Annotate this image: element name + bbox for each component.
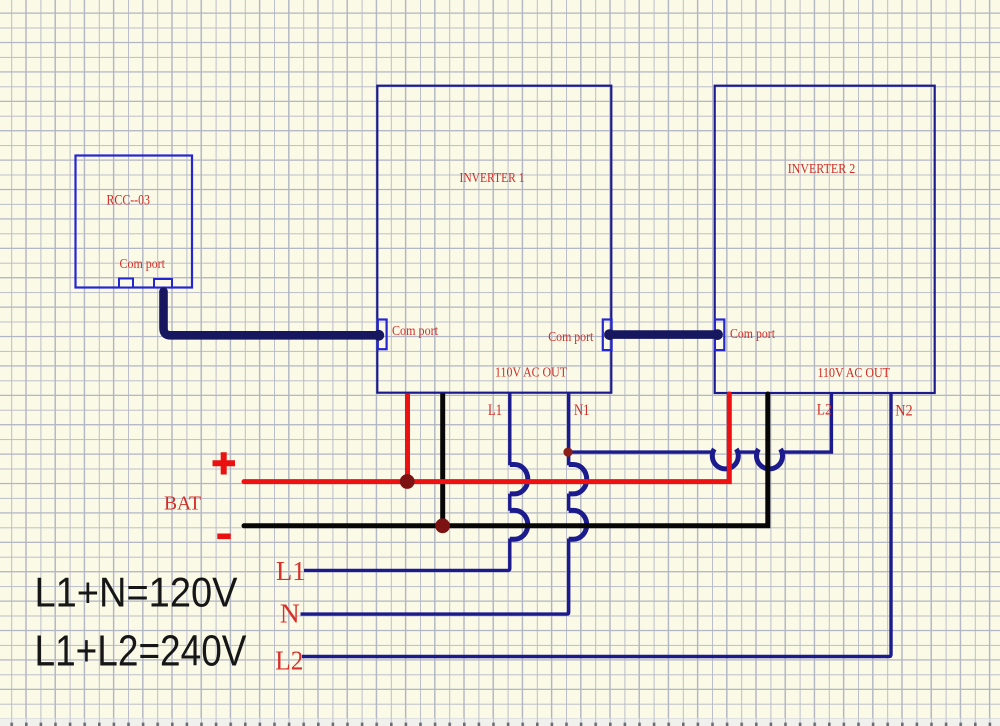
svg-text:L2: L2: [275, 646, 303, 676]
svg-text:Com port: Com port: [548, 329, 593, 344]
svg-text:L1+N=120V: L1+N=120V: [35, 569, 238, 616]
svg-text:110V AC OUT: 110V AC OUT: [818, 366, 891, 381]
svg-text:L1: L1: [276, 556, 306, 586]
communication cable W1 from RCC to inverter 1: [164, 292, 379, 336]
hop of tie wire over red riser: [712, 449, 738, 469]
hop of wire N1 over red bus: [569, 465, 587, 494]
svg-text:BAT: BAT: [164, 492, 201, 514]
wire N1 output of inverter 1 (vertical with hops): [301, 394, 569, 615]
svg-text:RCC--03: RCC--03: [107, 192, 151, 208]
com port connector J1 on inverter 1 left: [378, 320, 387, 350]
wire N2 output of inverter 2: [302, 394, 891, 657]
svg-text:L2: L2: [817, 402, 832, 419]
svg-text:Com port: Com port: [730, 326, 775, 341]
svg-text:L1: L1: [488, 402, 502, 419]
junction dot on red bus at inverter 1 riser: [400, 474, 415, 489]
junction node on N1 wire: [563, 448, 572, 457]
com port connector J3 on inverter 2 left: [715, 320, 724, 351]
junction dot on black bus at inverter 1 riser: [435, 518, 450, 533]
tie wire from node N1 to inverter 2 L2 (horizontal with hops): [569, 394, 832, 453]
minus symbol: [217, 534, 230, 540]
hop of wire L1 over red bus: [510, 465, 528, 494]
svg-text:Com port: Com port: [392, 323, 438, 338]
svg-text:N1: N1: [574, 402, 590, 419]
svg-text:N2: N2: [895, 402, 913, 419]
hop of wire N1 over black bus: [569, 510, 587, 539]
red riser wire from inverter 1 DC+: [405, 394, 410, 482]
connector pin A on RCC: [119, 279, 133, 288]
box RCC-03 remote controller: [76, 156, 193, 288]
svg-text:L1+L2=240V: L1+L2=240V: [35, 626, 248, 675]
connector pin B on RCC: [154, 279, 172, 288]
svg-text:N: N: [280, 598, 300, 628]
hop of tie wire over black riser: [757, 449, 783, 469]
hop of wire L1 over black bus: [510, 510, 528, 539]
communication cable W2 from inverter 1 to inverter 2: [610, 330, 718, 339]
plus symbol: [213, 452, 236, 474]
box INVERTER 2: [715, 86, 935, 393]
svg-text:INVERTER 2: INVERTER 2: [788, 162, 856, 177]
box INVERTER 1: [377, 86, 611, 393]
wire L1 output of inverter 1 (vertical with hops): [304, 394, 510, 571]
svg-text:110V AC OUT: 110V AC OUT: [495, 365, 567, 380]
com port connector J2 on inverter 1 right: [603, 320, 612, 351]
battery positive bus wire (red): [244, 394, 729, 482]
black riser wire from inverter 1 DC-: [440, 394, 445, 526]
svg-text:INVERTER 1: INVERTER 1: [460, 171, 525, 186]
svg-text:Com port: Com port: [120, 256, 166, 271]
battery negative bus wire (black): [244, 394, 768, 526]
